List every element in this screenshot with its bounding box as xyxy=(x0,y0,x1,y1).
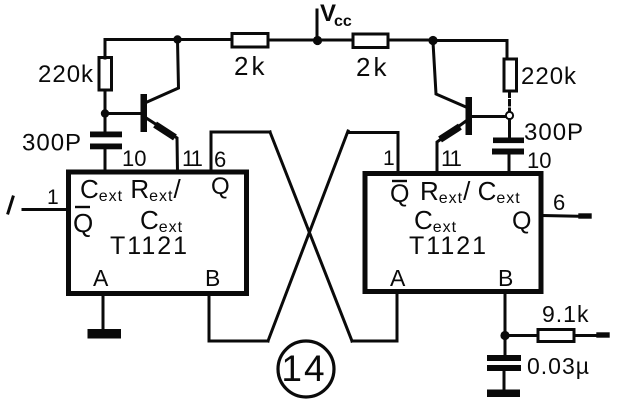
wire Q1 emitter to pin 11 xyxy=(147,119,178,173)
wire top rail left segment xyxy=(105,38,232,41)
wire R 9.1k to terminal xyxy=(574,334,604,337)
svg-text:B: B xyxy=(498,265,513,291)
wire Q2 collector xyxy=(433,42,466,107)
svg-text:300P: 300P xyxy=(22,130,82,157)
wire cross-couple diagonal (left Q to right A) xyxy=(270,132,352,341)
svg-text:Q: Q xyxy=(73,208,93,238)
wire Q1 collector xyxy=(147,40,179,102)
wire pin 1 (right IC) up and over xyxy=(348,133,398,174)
input slash mark xyxy=(8,197,13,213)
resistor R 220k (right) xyxy=(504,59,517,91)
resistor R 2k (right) xyxy=(353,34,388,48)
svg-text:10: 10 xyxy=(527,148,551,173)
wire base node down to C 300P xyxy=(104,114,107,132)
wire C 0.03u to ground xyxy=(503,371,506,390)
transistor Q1 emitter arrow xyxy=(158,127,172,136)
wire base node to Q1 base bar xyxy=(105,112,140,115)
svg-text:6: 6 xyxy=(553,190,565,215)
wire pin 6 (left IC) up and over xyxy=(211,132,270,172)
wire Q2 base xyxy=(471,115,505,118)
wire node to C 0.03u xyxy=(504,339,507,355)
svg-text:2k: 2k xyxy=(356,52,389,82)
svg-text:11: 11 xyxy=(441,146,462,171)
capacitor C 300P (left) plates xyxy=(90,132,122,138)
svg-text:220k: 220k xyxy=(521,63,577,90)
ground (left) xyxy=(88,329,122,339)
node open circle (right base) xyxy=(506,112,513,119)
svg-text:B: B xyxy=(205,265,220,291)
wire top rail right-middle segment xyxy=(388,39,433,42)
wire dashed R220k to base node (right) xyxy=(508,92,511,111)
wire pin A to ground (left) xyxy=(102,295,105,330)
pin 6 end tick xyxy=(581,213,589,218)
svg-text:1: 1 xyxy=(47,186,59,209)
wire pin A (right) to diagonal xyxy=(352,294,397,341)
node left base junction xyxy=(101,109,109,117)
resistor R 2k (left) xyxy=(232,34,268,48)
wire top rail right segment xyxy=(433,39,507,42)
wire pin B (left) to diagonal xyxy=(209,295,268,341)
op-amp U2 IC box T1121 (right) xyxy=(365,174,541,292)
resistor R 9.1k xyxy=(538,330,574,342)
wire node to C 300P (right) xyxy=(508,120,511,138)
transistor Q1 base bar xyxy=(141,94,148,132)
svg-text:T1121: T1121 xyxy=(409,232,488,260)
wire right corner drop to R 220k xyxy=(506,41,509,59)
wire pin B (right) down to node xyxy=(504,294,507,335)
transistor Q2 base bar xyxy=(466,97,473,135)
terminal tick 9.1k xyxy=(599,332,607,337)
wire C300P to pin 10 (right) xyxy=(508,155,511,172)
wire R220k bottom to base node xyxy=(104,91,107,113)
wire pin 6 output (right) xyxy=(543,216,589,217)
wire C300P to pin 10 xyxy=(104,149,107,172)
capacitor C 300P (right) plates xyxy=(493,138,524,144)
node Vcc junction xyxy=(313,36,322,45)
svg-text:T1121: T1121 xyxy=(110,232,189,260)
svg-text:2k: 2k xyxy=(234,51,267,81)
resistor R 220k (left) xyxy=(99,58,112,91)
node Q2 collector junction xyxy=(428,36,437,45)
figure number circle 14 xyxy=(278,341,334,397)
svg-text:1: 1 xyxy=(383,147,395,170)
wire input to pin 1 xyxy=(23,208,68,211)
ground (right) xyxy=(487,390,520,398)
svg-text:0.03µ: 0.03µ xyxy=(527,353,590,379)
svg-text:14: 14 xyxy=(281,348,326,389)
op-amp U1 IC box T1121 (left) xyxy=(69,172,247,294)
wire left corner drop to R 220k xyxy=(104,40,107,59)
svg-text:Q: Q xyxy=(390,180,409,208)
wire cross-couple diagonal (right Q1pin to left B) xyxy=(268,131,348,341)
svg-text:cc: cc xyxy=(334,13,352,30)
svg-text:6: 6 xyxy=(214,147,226,172)
node B junction (right) xyxy=(500,331,509,340)
svg-text:A: A xyxy=(390,265,406,291)
capacitor C 0.03u plates xyxy=(487,355,521,361)
wire node to R 9.1k xyxy=(505,334,538,337)
svg-text:220k: 220k xyxy=(38,61,94,88)
svg-text:9.1k: 9.1k xyxy=(542,301,589,327)
transistor Q2 emitter arrow xyxy=(443,129,457,138)
wire Q2 emitter to pin 11 xyxy=(437,121,466,172)
node Q1 collector junction xyxy=(173,35,181,43)
svg-text:Q: Q xyxy=(512,207,531,235)
wire Vcc stub xyxy=(316,10,319,40)
svg-text:Q: Q xyxy=(211,173,230,200)
wire top rail middle segment xyxy=(268,39,352,42)
svg-text:300P: 300P xyxy=(524,119,584,146)
svg-text:A: A xyxy=(93,265,109,291)
svg-text:10: 10 xyxy=(122,146,146,171)
svg-text:11: 11 xyxy=(182,146,203,171)
